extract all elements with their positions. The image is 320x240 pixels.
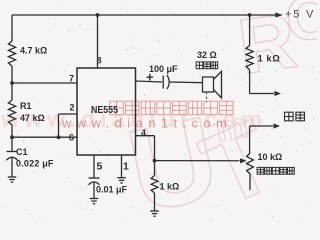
svg-text:10 kΩ: 10 kΩ <box>258 152 283 162</box>
svg-text:47 kΩ: 47 kΩ <box>20 113 45 123</box>
svg-text:0.01 μF: 0.01 μF <box>96 185 128 195</box>
svg-text:www.dian1t.com: www.dian1t.com <box>61 116 232 131</box>
svg-text:+5 V: +5 V <box>285 9 315 21</box>
svg-text:R1: R1 <box>20 101 32 111</box>
svg-text:4: 4 <box>141 128 146 138</box>
svg-text:5: 5 <box>97 161 103 173</box>
svg-text:100 μF: 100 μF <box>149 64 178 74</box>
svg-text:0.022 μF: 0.022 μF <box>16 159 54 169</box>
svg-text:1 kΩ: 1 kΩ <box>160 182 180 192</box>
svg-text:C1: C1 <box>16 147 28 157</box>
svg-text:4.7 kΩ: 4.7 kΩ <box>20 46 47 56</box>
svg-text:2: 2 <box>69 103 74 113</box>
svg-text:8: 8 <box>96 56 101 66</box>
svg-text:32 Ω: 32 Ω <box>197 50 217 60</box>
svg-text:NE555: NE555 <box>91 104 118 116</box>
svg-text:1: 1 <box>123 161 129 173</box>
svg-text:6: 6 <box>69 133 74 144</box>
svg-text:1 kΩ: 1 kΩ <box>258 54 281 65</box>
svg-text:7: 7 <box>69 74 74 84</box>
